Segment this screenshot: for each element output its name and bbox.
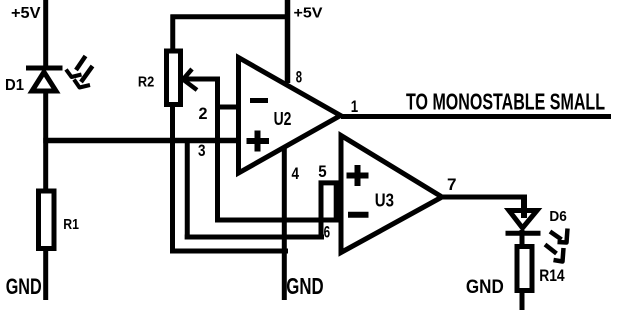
wire pin5 stub to U3 plus input xyxy=(319,180,344,185)
wire +5V left vertical to D1 xyxy=(43,0,48,66)
wire pin5 branch up xyxy=(319,181,324,240)
wire pin2 stub to U2 minus input xyxy=(215,105,240,110)
svg-text:U2: U2 xyxy=(274,108,292,129)
wire pin5 branch horizontal xyxy=(185,235,324,240)
wire D6 cathode to R14 xyxy=(520,230,525,246)
wire pin5 branch vertical from sensor rail xyxy=(185,138,190,240)
resistor R1 xyxy=(39,191,55,249)
potentiometer R2 body xyxy=(167,51,181,105)
light arrow out of D6 (lower) xyxy=(545,245,564,262)
wire R14 bottom to GND xyxy=(520,293,525,310)
wire corner down to D6 xyxy=(521,195,527,219)
wire top rail R2 to +5V xyxy=(171,14,291,19)
svg-text:1: 1 xyxy=(351,97,358,116)
wire R1 bottom to GND xyxy=(43,249,48,300)
svg-text:2: 2 xyxy=(199,104,208,123)
op-amp U3 plus symbol xyxy=(347,165,369,186)
op-amp U2 plus symbol xyxy=(247,131,270,152)
svg-text:4: 4 xyxy=(292,164,300,183)
svg-text:7: 7 xyxy=(447,175,457,194)
svg-text:U3: U3 xyxy=(375,189,394,210)
op-amp U3 minus symbol xyxy=(348,212,369,218)
potentiometer R2 wiper arrow xyxy=(183,69,220,90)
svg-text:+5V: +5V xyxy=(11,5,41,22)
wire R2 bottom lead down xyxy=(170,104,175,254)
svg-text:8: 8 xyxy=(296,67,302,86)
wire D1 anode down to R1 xyxy=(43,92,48,191)
svg-text:R1: R1 xyxy=(63,216,79,233)
op-amp U2 xyxy=(239,58,341,174)
wire pin6 horizontal to U3 minus input xyxy=(215,218,344,223)
light arrow into D1 (lower) xyxy=(74,66,93,88)
svg-text:D1: D1 xyxy=(5,77,24,94)
svg-text:6: 6 xyxy=(324,223,331,242)
diode D1 triangle xyxy=(32,72,56,91)
resistor R14 xyxy=(517,247,532,291)
op-amp U3 xyxy=(341,136,442,253)
svg-text:GND: GND xyxy=(286,273,323,299)
wire wiper/pin2 vertical xyxy=(215,77,220,223)
svg-text:GND: GND xyxy=(6,274,42,299)
LED D6 cathode bar xyxy=(506,231,541,236)
diode D1 cathode bar xyxy=(26,66,63,71)
wire R2 bottom across to GND node xyxy=(170,249,288,254)
svg-text:R14: R14 xyxy=(539,266,565,285)
wire sensor rail D1/R1 junction to U2 pin3 xyxy=(43,138,241,144)
wire U2 output to monostable xyxy=(341,114,611,119)
svg-text:+5V: +5V xyxy=(294,4,323,21)
op-amp U2 minus symbol xyxy=(250,98,268,103)
svg-text:3: 3 xyxy=(198,141,206,160)
svg-text:GND: GND xyxy=(466,276,504,298)
light arrow out of D6 (upper) xyxy=(550,229,568,243)
wire U3 output to D6 xyxy=(443,195,527,200)
wire +5V down to U2 pin8 xyxy=(285,0,291,83)
svg-text:5: 5 xyxy=(318,162,326,181)
svg-text:R2: R2 xyxy=(138,73,154,90)
wire U2 pin4 down to GND xyxy=(282,146,287,300)
light arrow into D1 (upper) xyxy=(66,56,86,77)
LED D6 triangle xyxy=(509,211,537,229)
svg-text:D6: D6 xyxy=(549,208,566,225)
svg-text:TO MONOSTABLE SMALL: TO MONOSTABLE SMALL xyxy=(406,89,605,115)
wire stub vertical beside U3 inputs xyxy=(334,183,339,222)
wire R2 top lead xyxy=(170,15,175,53)
